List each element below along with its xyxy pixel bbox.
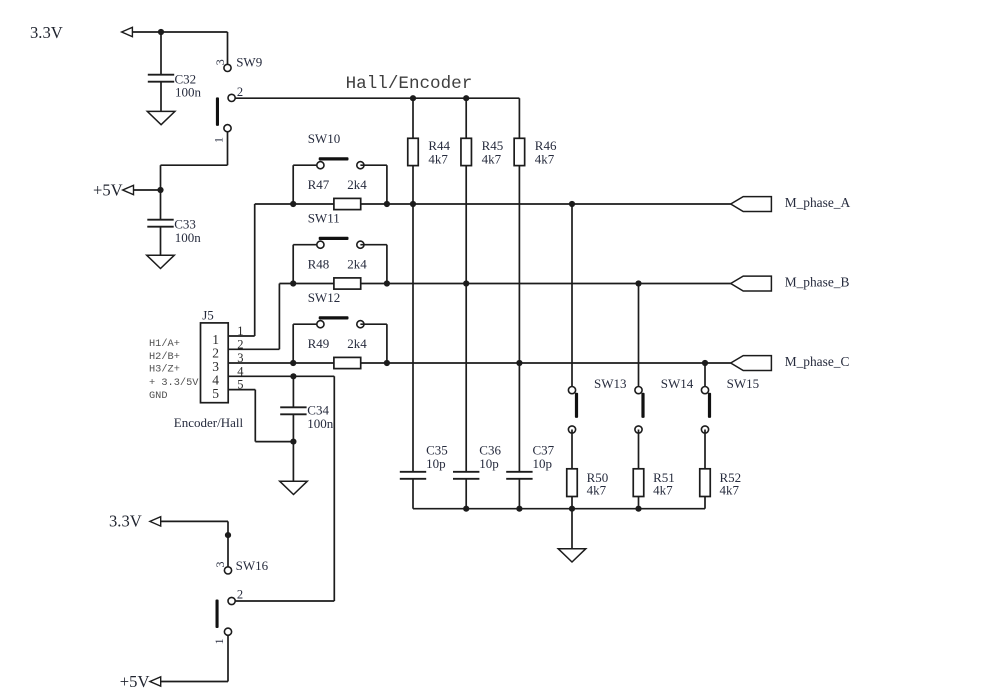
pin number 4 (J5 outside) bbox=[237, 364, 244, 378]
wire bbox=[518, 166, 520, 472]
svg-text:J5: J5 bbox=[202, 308, 214, 323]
wire bottom rail bbox=[413, 508, 705, 510]
label R47 bbox=[308, 177, 330, 192]
svg-text:M_phase_A: M_phase_A bbox=[785, 195, 851, 210]
wire bbox=[704, 430, 706, 509]
resistor R52 bbox=[700, 469, 711, 497]
power flag arrow 3.3V top bbox=[122, 27, 133, 36]
wire bbox=[333, 376, 335, 601]
svg-text:2k4: 2k4 bbox=[347, 256, 367, 271]
label R49 bbox=[308, 336, 330, 351]
svg-text:1: 1 bbox=[212, 638, 226, 644]
capacitor C33 bbox=[147, 220, 173, 227]
power flag arrow 3.3V bottom bbox=[150, 517, 161, 526]
power net 3.3V (top) bbox=[30, 23, 63, 42]
label R48 bbox=[308, 256, 330, 271]
wire bbox=[360, 244, 387, 246]
wire bbox=[571, 204, 573, 390]
pin label 2 (SW9) bbox=[237, 85, 243, 99]
switch SW14 pin 1 bbox=[635, 387, 642, 394]
wire bbox=[386, 165, 388, 204]
capacitor C35 bbox=[400, 472, 426, 479]
wire bbox=[161, 164, 228, 166]
label R50 bbox=[587, 470, 609, 485]
capacitor C32 bbox=[148, 75, 174, 82]
wire bbox=[160, 32, 162, 74]
node junction rowB/R45 bbox=[463, 280, 469, 286]
wire bbox=[160, 681, 228, 683]
wire bbox=[160, 190, 162, 219]
svg-text:SW14: SW14 bbox=[661, 376, 694, 391]
label C35 bbox=[426, 443, 448, 458]
wire M_phase_A row bbox=[255, 203, 731, 205]
switch SW9 actuator bbox=[216, 97, 219, 126]
resistor R46 bbox=[514, 138, 525, 165]
wire bbox=[412, 479, 414, 509]
label C34 bbox=[307, 403, 329, 418]
node junction rail/C36 bbox=[463, 506, 469, 512]
svg-text:3.3V: 3.3V bbox=[30, 23, 63, 42]
node junction pin4/C34 bbox=[290, 373, 296, 379]
switch SW16 actuator bbox=[216, 600, 219, 629]
switch SW13 actuator bbox=[575, 393, 578, 418]
svg-text:100n: 100n bbox=[307, 416, 334, 431]
label R44 bbox=[428, 138, 450, 153]
net name M_phase_B bbox=[785, 274, 850, 289]
label C36 bbox=[479, 443, 501, 458]
switch SW12 pin 2 bbox=[357, 321, 364, 328]
svg-text:10p: 10p bbox=[426, 456, 446, 471]
value 4k7 (R52) bbox=[720, 483, 740, 498]
ground (C32) bbox=[147, 111, 175, 124]
svg-text:M_phase_C: M_phase_C bbox=[785, 354, 850, 369]
svg-text:3: 3 bbox=[213, 59, 227, 65]
svg-text:Encoder/Hall: Encoder/Hall bbox=[174, 415, 244, 430]
wire bbox=[227, 521, 229, 570]
resistor R44 bbox=[408, 138, 419, 165]
hierarchical label M_phase_B bbox=[731, 276, 772, 291]
svg-text:4k7: 4k7 bbox=[482, 151, 502, 166]
pin number 4 (J5 inside) bbox=[212, 373, 219, 388]
wire bbox=[160, 82, 162, 112]
value 4k7 (R50) bbox=[587, 483, 607, 498]
wire J5 pin 5 stub bbox=[228, 389, 255, 391]
node junction R48 left bbox=[290, 280, 296, 286]
switch SW14 pin 2 bbox=[635, 426, 642, 433]
value 100n (C34) bbox=[307, 416, 334, 431]
switch SW11 pin 1 bbox=[317, 241, 324, 248]
value 10p (C37) bbox=[533, 456, 553, 471]
label SW16 bbox=[236, 558, 269, 573]
pin name H1/A+ bbox=[149, 338, 180, 350]
svg-text:SW12: SW12 bbox=[308, 290, 341, 305]
node junction +5V/C33 bbox=[157, 187, 163, 193]
node junction R47 right bbox=[384, 201, 390, 207]
svg-text:5: 5 bbox=[212, 386, 219, 401]
pin number 1 (J5 inside) bbox=[212, 332, 219, 347]
node junction 3.3V bottom bbox=[225, 532, 231, 538]
ground (C34) bbox=[280, 481, 308, 494]
wire J5 pin 4 stub bbox=[228, 375, 334, 377]
svg-text:SW11: SW11 bbox=[308, 211, 340, 226]
wire bbox=[465, 98, 467, 138]
value 2k4 (R49) bbox=[347, 336, 367, 351]
resistor R47 bbox=[334, 198, 361, 209]
power net 3.3V (bottom) bbox=[109, 512, 142, 531]
power flag arrow +5V bottom bbox=[150, 677, 161, 686]
label R45 bbox=[482, 138, 504, 153]
svg-text:5: 5 bbox=[237, 378, 243, 392]
pin label 2 (SW16) bbox=[237, 587, 243, 601]
resistor R51 bbox=[633, 469, 644, 497]
label C37 bbox=[533, 443, 555, 458]
wire bbox=[134, 189, 161, 191]
pin name GND bbox=[149, 390, 168, 402]
wire M_phase_B row bbox=[279, 283, 730, 285]
label SW14 bbox=[661, 376, 694, 391]
wire bbox=[292, 376, 294, 407]
svg-text:1: 1 bbox=[211, 137, 225, 143]
svg-text:4k7: 4k7 bbox=[720, 483, 740, 498]
node junction bus/R44 bbox=[410, 95, 416, 101]
pin label 1 (SW9) bbox=[211, 137, 225, 143]
label SW13 bbox=[594, 376, 627, 391]
label SW12 bbox=[308, 290, 341, 305]
pin name H3/Z+ bbox=[149, 364, 180, 376]
svg-text:SW9: SW9 bbox=[236, 54, 262, 69]
wire bbox=[360, 164, 387, 166]
label SW9 bbox=[236, 54, 262, 69]
label J5 bbox=[202, 308, 214, 323]
svg-text:4k7: 4k7 bbox=[587, 483, 607, 498]
wire J5 pin 2 stub bbox=[228, 348, 279, 350]
svg-text:4: 4 bbox=[237, 364, 244, 378]
wire bbox=[465, 166, 467, 472]
node junction rowA/SW13 bbox=[569, 201, 575, 207]
pin name H2/B+ bbox=[149, 351, 180, 363]
capacitor C34 bbox=[280, 407, 306, 414]
node junction rowB/SW14 bbox=[635, 280, 641, 286]
node junction R49 right bbox=[384, 360, 390, 366]
svg-text:10p: 10p bbox=[533, 456, 553, 471]
label SW11 bbox=[308, 211, 340, 226]
node junction rowC/SW15 bbox=[702, 360, 708, 366]
svg-text:Hall/Encoder: Hall/Encoder bbox=[346, 74, 473, 94]
value 100n (C32) bbox=[175, 85, 202, 100]
switch SW16 pin 2 bbox=[228, 597, 235, 604]
svg-text:H1/A+: H1/A+ bbox=[149, 338, 180, 350]
wire bbox=[160, 227, 162, 256]
wire bbox=[235, 600, 334, 602]
switch SW9 pin 3 bbox=[224, 64, 231, 71]
svg-text:1: 1 bbox=[237, 324, 243, 338]
svg-text:2k4: 2k4 bbox=[347, 177, 367, 192]
svg-text:R48: R48 bbox=[308, 256, 330, 271]
value 4k7 (R46) bbox=[535, 151, 555, 166]
value 2k4 (R48) bbox=[347, 256, 367, 271]
pin number 5 (J5 inside) bbox=[212, 386, 219, 401]
wire bbox=[227, 32, 229, 68]
value 2k4 (R47) bbox=[347, 177, 367, 192]
node junction rail/C37 bbox=[516, 506, 522, 512]
wire bbox=[254, 390, 256, 442]
hierarchical label M_phase_C bbox=[731, 356, 772, 371]
wire bbox=[227, 635, 229, 681]
svg-text:2: 2 bbox=[237, 337, 243, 351]
svg-text:2: 2 bbox=[237, 85, 243, 99]
wire bbox=[254, 204, 256, 336]
svg-text:R47: R47 bbox=[308, 177, 330, 192]
switch SW11 actuator bbox=[319, 237, 349, 240]
net name M_phase_C bbox=[785, 354, 850, 369]
svg-text:4k7: 4k7 bbox=[535, 151, 555, 166]
svg-text:+5V: +5V bbox=[120, 672, 150, 691]
wire bbox=[518, 479, 520, 509]
switch SW12 pin 1 bbox=[317, 321, 324, 328]
node junction R49 left bbox=[290, 360, 296, 366]
pin number 2 (J5 inside) bbox=[212, 346, 219, 361]
capacitor C36 bbox=[453, 472, 479, 479]
power flag arrow +5V top bbox=[123, 185, 134, 194]
svg-text:3: 3 bbox=[237, 351, 243, 365]
switch SW13 pin 2 bbox=[568, 426, 575, 433]
switch SW14 actuator bbox=[641, 393, 644, 418]
wire bbox=[465, 479, 467, 509]
node junction R47 left bbox=[290, 201, 296, 207]
node junction rail/R51 bbox=[635, 506, 641, 512]
wire Hall/Encoder bus bbox=[235, 97, 519, 99]
svg-text:100n: 100n bbox=[175, 230, 202, 245]
svg-text:4k7: 4k7 bbox=[428, 151, 448, 166]
svg-text:4k7: 4k7 bbox=[653, 483, 673, 498]
svg-text:SW13: SW13 bbox=[594, 376, 627, 391]
label R52 bbox=[720, 470, 742, 485]
resistor R50 bbox=[567, 469, 578, 497]
wire bbox=[293, 244, 320, 246]
switch SW10 actuator bbox=[319, 157, 349, 160]
switch SW9 pin 2 bbox=[228, 94, 235, 101]
svg-text:10p: 10p bbox=[479, 456, 499, 471]
wire bbox=[704, 363, 706, 390]
svg-text:GND: GND bbox=[149, 390, 168, 402]
switch SW11 pin 2 bbox=[357, 241, 364, 248]
wire bbox=[278, 284, 280, 350]
value 4k7 (R44) bbox=[428, 151, 448, 166]
svg-text:100n: 100n bbox=[175, 85, 202, 100]
node junction rail/R50/gnd bbox=[569, 506, 575, 512]
resistor R48 bbox=[334, 278, 361, 289]
svg-text:SW15: SW15 bbox=[727, 376, 760, 391]
pin number 1 (J5 outside) bbox=[237, 324, 243, 338]
svg-text:2k4: 2k4 bbox=[347, 336, 367, 351]
wire bbox=[132, 31, 227, 33]
wire bbox=[638, 430, 640, 509]
capacitor C37 bbox=[506, 472, 532, 479]
wire bbox=[386, 324, 388, 363]
ground (rail) bbox=[558, 549, 586, 562]
node junction bus/R45 bbox=[463, 95, 469, 101]
wire bbox=[293, 164, 320, 166]
pin label 3 (SW9) bbox=[213, 59, 227, 65]
switch SW15 pin 2 bbox=[701, 426, 708, 433]
wire bbox=[227, 132, 229, 165]
wire bbox=[360, 323, 387, 325]
wire bbox=[255, 441, 293, 443]
switch SW16 pin 1 bbox=[224, 628, 231, 635]
node junction 3.3V/C32 bbox=[158, 29, 164, 35]
svg-text:H2/B+: H2/B+ bbox=[149, 351, 180, 363]
value 4k7 (R51) bbox=[653, 483, 673, 498]
label SW15 bbox=[727, 376, 760, 391]
hierarchical label M_phase_A bbox=[731, 197, 772, 212]
wire bbox=[412, 166, 414, 472]
svg-text:M_phase_B: M_phase_B bbox=[785, 274, 850, 289]
pin number 3 (J5 outside) bbox=[237, 351, 243, 365]
svg-text:H3/Z+: H3/Z+ bbox=[149, 364, 180, 376]
wire bbox=[292, 165, 294, 204]
value 10p (C35) bbox=[426, 456, 446, 471]
svg-text:3: 3 bbox=[213, 562, 227, 568]
wire bbox=[571, 509, 573, 549]
value 10p (C36) bbox=[479, 456, 499, 471]
wire bbox=[161, 520, 228, 522]
wire J5 pin 1 stub bbox=[228, 335, 255, 337]
label C33 bbox=[174, 217, 196, 232]
wire bbox=[292, 245, 294, 284]
switch SW9 pin 1 bbox=[224, 125, 231, 132]
svg-text:+ 3.3/5V: + 3.3/5V bbox=[149, 377, 199, 389]
label C32 bbox=[175, 71, 197, 86]
pin number 2 (J5 outside) bbox=[237, 337, 243, 351]
node junction pin5/C34/gnd bbox=[290, 439, 296, 445]
connector J5 body bbox=[201, 323, 229, 403]
wire bbox=[293, 323, 320, 325]
resistor R45 bbox=[461, 138, 472, 165]
value 100n (C33) bbox=[175, 230, 202, 245]
svg-text:+5V: +5V bbox=[93, 181, 123, 200]
svg-text:SW10: SW10 bbox=[308, 131, 341, 146]
wire bbox=[638, 284, 640, 391]
pin label 3 (SW16) bbox=[213, 562, 227, 568]
node junction R48 right bbox=[384, 280, 390, 286]
pin name + 3.3/5V bbox=[149, 377, 199, 389]
label R51 bbox=[653, 470, 675, 485]
ground (C33) bbox=[147, 255, 175, 268]
label SW10 bbox=[308, 131, 341, 146]
node junction rowC/R46 bbox=[516, 360, 522, 366]
wire bbox=[386, 245, 388, 284]
svg-text:2: 2 bbox=[237, 587, 243, 601]
wire M_phase_C row bbox=[228, 362, 731, 364]
title Hall/Encoder bbox=[346, 74, 473, 94]
switch SW12 actuator bbox=[319, 316, 349, 319]
node junction rowA/R44 bbox=[410, 201, 416, 207]
switch SW15 pin 1 bbox=[701, 387, 708, 394]
svg-text:SW16: SW16 bbox=[236, 558, 269, 573]
switch SW10 pin 1 bbox=[317, 162, 324, 169]
switch SW10 pin 2 bbox=[357, 162, 364, 169]
wire bbox=[292, 414, 294, 441]
label R46 bbox=[535, 138, 557, 153]
pin number 5 (J5 outside) bbox=[237, 378, 243, 392]
pin label 1 (SW16) bbox=[212, 638, 226, 644]
power net +5V (top) bbox=[93, 181, 123, 200]
wire bbox=[518, 98, 520, 138]
wire bbox=[292, 442, 294, 482]
value 4k7 (R45) bbox=[482, 151, 502, 166]
svg-text:3.3V: 3.3V bbox=[109, 512, 142, 531]
switch SW16 pin 3 bbox=[224, 567, 231, 574]
resistor R49 bbox=[334, 357, 361, 368]
power net +5V (bottom) bbox=[120, 672, 150, 691]
wire bbox=[292, 324, 294, 363]
pin number 3 (J5 inside) bbox=[212, 359, 219, 374]
svg-text:R49: R49 bbox=[308, 336, 330, 351]
label Encoder/Hall bbox=[174, 415, 244, 430]
switch SW15 actuator bbox=[708, 393, 711, 418]
wire bbox=[160, 165, 162, 190]
wire bbox=[571, 430, 573, 509]
wire bbox=[412, 98, 414, 138]
switch SW13 pin 1 bbox=[568, 387, 575, 394]
net name M_phase_A bbox=[785, 195, 851, 210]
